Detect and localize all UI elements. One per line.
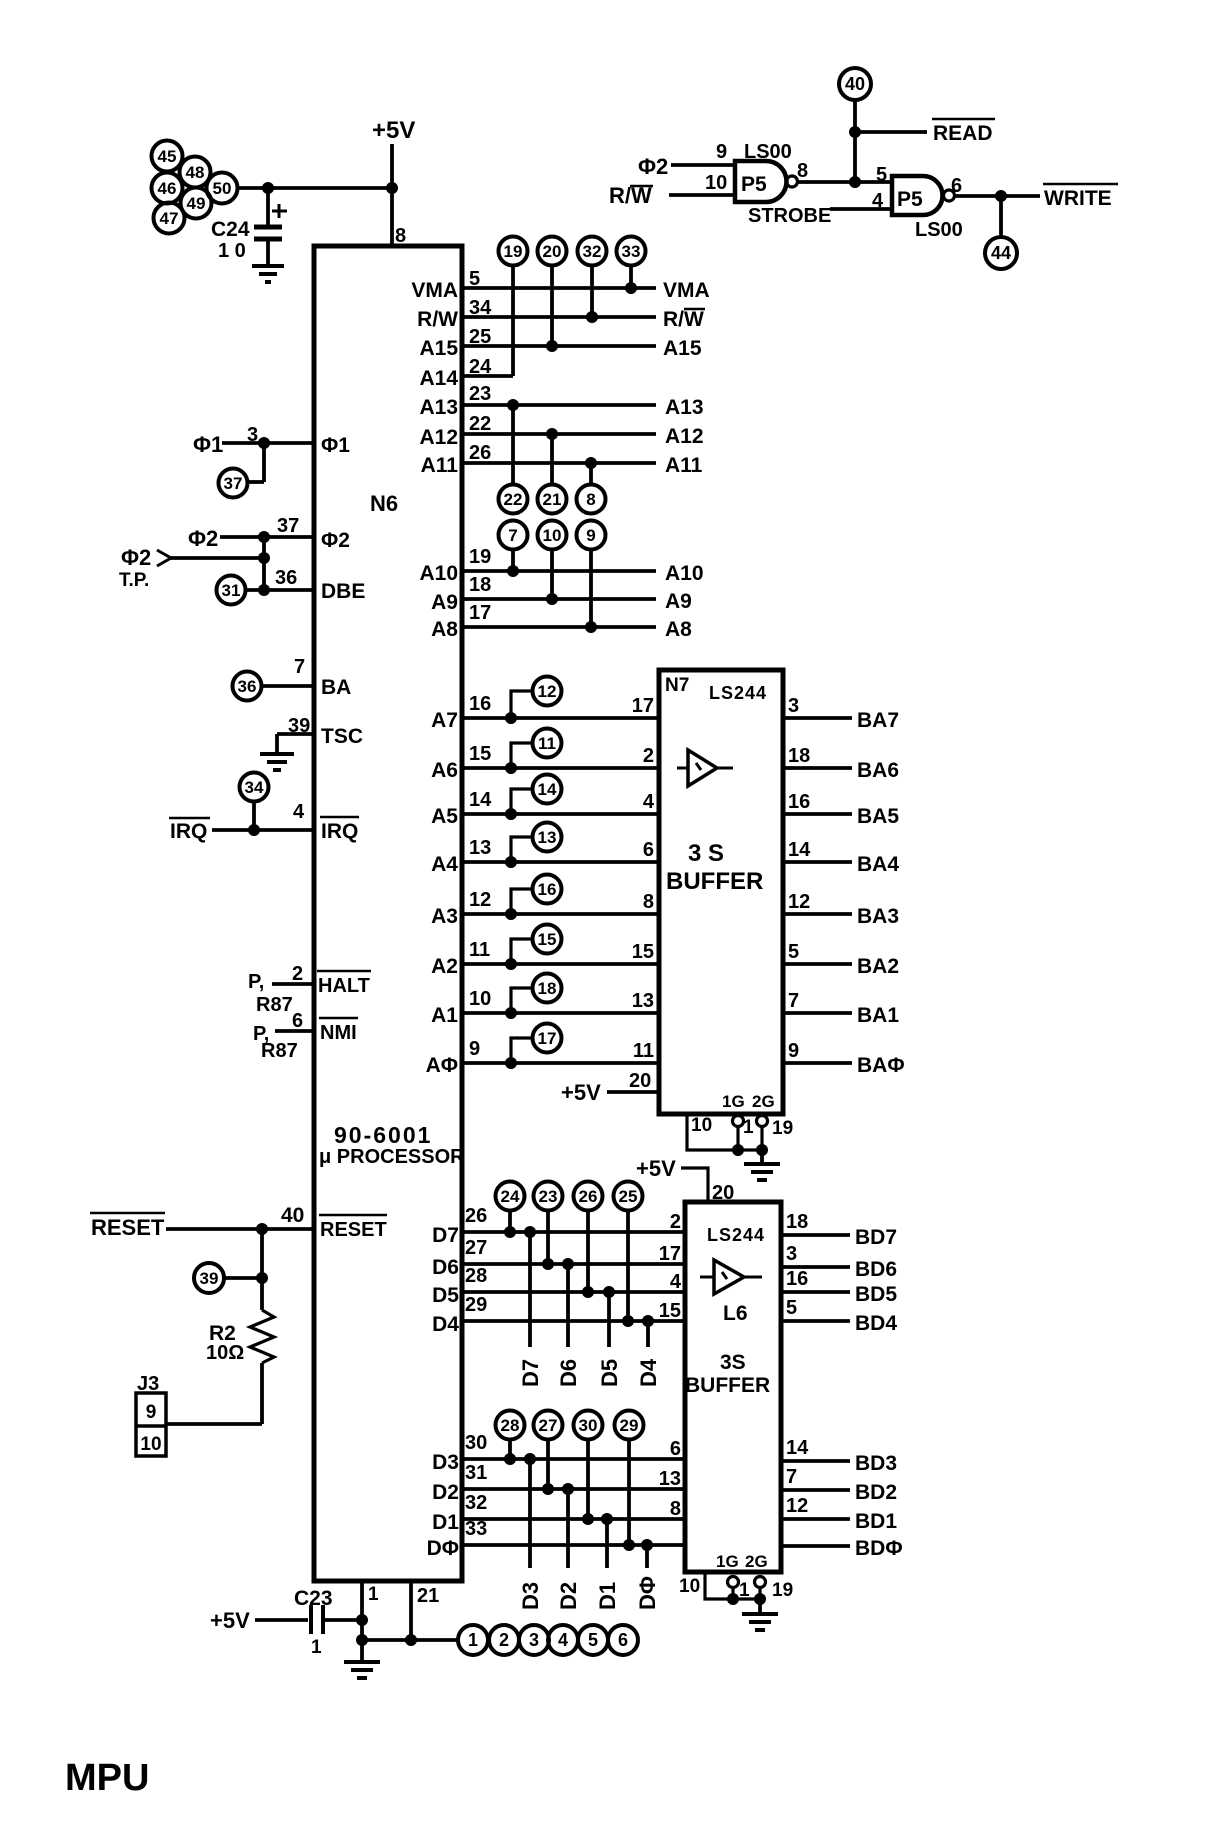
- pin 25 label: [469, 326, 491, 348]
- junction D0 at circle stem: [623, 1539, 635, 1551]
- svg-text:A10: A10: [665, 562, 704, 585]
- wire BD6 output: [781, 1265, 850, 1269]
- capacitor C24 plates: [254, 227, 282, 239]
- connector J3 body: [136, 1393, 166, 1456]
- wire BDΦ output: [781, 1544, 850, 1548]
- svg-text:A12: A12: [419, 426, 458, 449]
- svg-text:BUFFER: BUFFER: [685, 1374, 770, 1397]
- svg-text:4: 4: [293, 801, 305, 823]
- buffer N7 input pin 4 label: [643, 791, 655, 813]
- junction D7 bus tap: [524, 1226, 536, 1238]
- svg-text:13: 13: [659, 1468, 681, 1490]
- pin 18 label: [469, 574, 491, 596]
- svg-text:D5: D5: [597, 1359, 622, 1387]
- pin 9 label: [716, 141, 727, 163]
- +5V label top: [372, 117, 415, 144]
- svg-text:12: 12: [538, 682, 557, 701]
- connector pad circle 24: [496, 1182, 525, 1211]
- svg-text:19: 19: [772, 1118, 793, 1139]
- pin 20 label N7: [629, 1070, 651, 1092]
- pin 4 label: [872, 190, 884, 212]
- junction A1 tap: [505, 1007, 517, 1019]
- svg-text:3: 3: [788, 695, 799, 717]
- pin 19 label: [469, 546, 491, 568]
- L6 pin 1 label: [739, 1580, 750, 1601]
- wire circle 10 stem: [550, 549, 554, 599]
- gate P5b part number LS00: [915, 219, 963, 241]
- svg-text:12: 12: [786, 1495, 808, 1517]
- svg-text:BDΦ: BDΦ: [855, 1537, 903, 1560]
- svg-text:N6: N6: [370, 491, 398, 516]
- svg-text:17: 17: [538, 1029, 557, 1048]
- pin name A4 inside MPU: [431, 853, 458, 876]
- svg-text:LS244: LS244: [709, 683, 767, 703]
- pin 8 label MPU Vcc: [395, 225, 406, 247]
- wire D1 bus drop: [605, 1519, 609, 1568]
- net label A10: [665, 562, 704, 585]
- svg-text:+5V: +5V: [561, 1080, 601, 1105]
- junction D4 bus tap: [642, 1315, 654, 1327]
- junction A13 node: [507, 399, 519, 411]
- svg-text:47: 47: [160, 209, 179, 228]
- wire PHI1 node to circle 37: [248, 443, 264, 482]
- connector pad circle 37: [219, 469, 248, 498]
- svg-text:21: 21: [543, 490, 562, 509]
- pin 36 label: [275, 567, 297, 589]
- ground at MPU pin 1: [344, 1662, 380, 1678]
- wire BA3 output: [783, 912, 852, 916]
- wire R87 to pin 6 NMI: [275, 1029, 314, 1033]
- pin name A11 inside: [421, 454, 459, 477]
- pin 6 label gate P5b output: [951, 175, 962, 197]
- title MPU: [65, 1757, 149, 1799]
- svg-text:6: 6: [618, 1630, 628, 1650]
- svg-text:A11: A11: [665, 454, 703, 477]
- buffer L6 input pin 8 label: [670, 1498, 681, 1520]
- wire A2 tap to circle 15: [511, 939, 532, 964]
- pin name A7 inside MPU: [431, 709, 458, 732]
- svg-text:BA2: BA2: [857, 955, 899, 978]
- junction D5 bus tap: [603, 1286, 615, 1298]
- net label IRQ: [169, 818, 210, 843]
- svg-text:19: 19: [772, 1580, 793, 1601]
- wire circle 29 stem: [627, 1439, 631, 1545]
- svg-text:32: 32: [583, 242, 602, 261]
- pin name AΦ inside MPU: [426, 1054, 458, 1077]
- svg-text:D4: D4: [636, 1358, 661, 1387]
- svg-text:DBE: DBE: [321, 580, 365, 603]
- svg-text:A8: A8: [665, 618, 692, 641]
- pin 10 label A1: [469, 988, 491, 1010]
- junction A6 tap: [505, 762, 517, 774]
- pin 13 label A4: [469, 837, 491, 859]
- svg-text:2: 2: [499, 1630, 509, 1650]
- svg-text:14: 14: [788, 839, 811, 861]
- junction D4 at circle stem: [622, 1315, 634, 1327]
- svg-text:10Ω: 10Ω: [206, 1342, 244, 1364]
- svg-text:3 S: 3 S: [688, 840, 724, 867]
- pin name A13 inside: [419, 396, 458, 419]
- svg-text:9: 9: [469, 1038, 480, 1060]
- svg-text:R/W: R/W: [417, 308, 458, 331]
- connector pad circle 50: [207, 173, 238, 204]
- svg-text:Φ2: Φ2: [321, 529, 350, 552]
- svg-text:TSC: TSC: [321, 725, 363, 748]
- IC N7 part number LS244: [709, 683, 767, 703]
- pin name A8 inside: [431, 618, 458, 641]
- svg-text:15: 15: [659, 1300, 681, 1322]
- wire R/W to gate P5a pin 10: [669, 193, 735, 197]
- pin 24 label: [469, 356, 492, 378]
- svg-text:17: 17: [469, 602, 491, 624]
- svg-text:9: 9: [716, 141, 727, 163]
- IC N7 label 3S: [688, 840, 724, 867]
- wire IRQ to pin 4: [212, 828, 314, 832]
- wire +5V down to rail: [390, 144, 394, 188]
- wire L6 pin 10 to enable ground: [705, 1572, 760, 1599]
- svg-text:18: 18: [538, 979, 557, 998]
- testpoint arrow PHI2: [157, 550, 171, 566]
- buffer L6 output pin 18 label: [786, 1211, 808, 1233]
- net label BD3: [855, 1452, 897, 1475]
- wire circle 39 to RESET net: [224, 1276, 262, 1280]
- pin 12 label A3: [469, 889, 491, 911]
- net label BD6: [855, 1258, 897, 1281]
- svg-text:+5V: +5V: [636, 1156, 676, 1181]
- junction PHI1 node: [258, 437, 270, 449]
- junction A8 node: [585, 621, 597, 633]
- net label BA2: [857, 955, 899, 978]
- junction D2 bus tap: [562, 1483, 574, 1495]
- junction PHI2 T.P. node: [258, 552, 270, 564]
- svg-text:11: 11: [633, 1040, 654, 1062]
- junction D5 at circle stem: [582, 1286, 594, 1298]
- connector pad circle 40: [839, 68, 871, 100]
- connector pad circle 4: [548, 1625, 578, 1655]
- ground below N7: [744, 1164, 780, 1180]
- svg-text:D7: D7: [432, 1224, 459, 1247]
- svg-text:15: 15: [632, 941, 654, 963]
- connector pad circle 25: [614, 1182, 643, 1211]
- pin 2 label: [292, 963, 303, 985]
- svg-text:11: 11: [538, 734, 556, 753]
- wire A6 tap to circle 11: [511, 743, 532, 768]
- svg-text:21: 21: [417, 1585, 439, 1607]
- svg-text:1: 1: [311, 1637, 322, 1658]
- pin name D7 inside MPU: [432, 1224, 459, 1247]
- connector pad circle 7: [499, 521, 528, 550]
- net label BA1: [857, 1004, 899, 1027]
- pin 33 label D0: [465, 1518, 487, 1540]
- svg-text:P5: P5: [741, 173, 767, 196]
- svg-text:+5V: +5V: [210, 1608, 250, 1633]
- buffer N7 input pin 15 label: [632, 941, 654, 963]
- pin 20 label L6: [712, 1182, 734, 1204]
- wire D7 bus drop: [528, 1232, 532, 1347]
- svg-text:READ: READ: [933, 122, 993, 145]
- IC N7 label BUFFER: [666, 868, 763, 895]
- wire C23 to pin 1 node: [325, 1618, 362, 1622]
- svg-text:A2: A2: [431, 955, 458, 978]
- svg-text:D5: D5: [432, 1284, 459, 1307]
- svg-text:BA6: BA6: [857, 759, 899, 782]
- svg-text:27: 27: [539, 1416, 558, 1435]
- net label BD5: [855, 1283, 897, 1306]
- connector pad circle 22: [499, 485, 528, 514]
- svg-text:5: 5: [786, 1297, 797, 1319]
- resistor R2: [250, 1310, 274, 1363]
- connector pad circle 15: [533, 925, 562, 954]
- pin name DΦ inside MPU: [427, 1537, 459, 1560]
- buffer L6 input pin 4 label: [670, 1271, 682, 1293]
- junction at C24 top: [262, 182, 274, 194]
- svg-text:46: 46: [158, 179, 177, 198]
- svg-text:17: 17: [632, 695, 654, 717]
- svg-text:P5: P5: [897, 188, 923, 211]
- buffer N7 output pin 14 label: [788, 839, 811, 861]
- svg-text:19: 19: [469, 546, 491, 568]
- svg-text:A9: A9: [665, 590, 692, 613]
- svg-text:C23: C23: [294, 1587, 333, 1610]
- bus label D5: [597, 1359, 622, 1387]
- IC N6 part number 90-6001: [334, 1122, 432, 1148]
- svg-text:10: 10: [705, 172, 727, 194]
- connector pad circle 20: [538, 237, 567, 266]
- capacitor C23 value 1: [311, 1637, 322, 1658]
- svg-text:26: 26: [579, 1187, 598, 1206]
- connector pad circle 3: [519, 1625, 549, 1655]
- svg-text:IRQ: IRQ: [170, 820, 207, 843]
- svg-text:μ PROCESSOR: μ PROCESSOR: [319, 1146, 465, 1168]
- pin name A5 inside MPU: [431, 805, 458, 828]
- net label BA3: [857, 905, 899, 928]
- svg-text:13: 13: [469, 837, 491, 859]
- svg-text:4: 4: [558, 1630, 568, 1650]
- svg-text:VMA: VMA: [411, 279, 458, 302]
- wire BA5 output: [783, 812, 852, 816]
- svg-text:BAΦ: BAΦ: [857, 1054, 905, 1077]
- junction +5V rail to MPU pin8: [386, 182, 398, 194]
- svg-text:RESET: RESET: [91, 1215, 165, 1240]
- svg-text:29: 29: [465, 1294, 487, 1316]
- wire PHI2 node down to DBE node: [262, 537, 266, 590]
- svg-text:26: 26: [469, 442, 491, 464]
- connector pad circle 45: [152, 141, 183, 172]
- L6 pin 10 label: [679, 1576, 700, 1597]
- buffer IC L6 LS244 body: [685, 1202, 781, 1572]
- svg-text:1G: 1G: [716, 1552, 739, 1571]
- wire A7 tap to circle 12: [511, 691, 532, 718]
- N7 pin 19 label: [772, 1118, 793, 1139]
- svg-text:5: 5: [876, 164, 887, 186]
- svg-text:1: 1: [743, 1117, 754, 1138]
- connector J3 label: [137, 1373, 159, 1395]
- capacitor C23 plates: [311, 1605, 323, 1634]
- svg-text:T.P.: T.P.: [119, 570, 149, 591]
- buffer L6 output pin 14 label: [786, 1437, 809, 1459]
- pin name TSC inside: [321, 725, 363, 748]
- connector pad circle 46: [152, 173, 183, 204]
- junction N7 enable 19: [756, 1144, 768, 1156]
- svg-text:STROBE: STROBE: [748, 205, 831, 227]
- connector pad circle 26: [574, 1182, 603, 1211]
- wire A4 tap to circle 13: [511, 837, 532, 862]
- +5V label at L6 pin 20: [636, 1156, 676, 1181]
- wire +5V to N7 pin 20: [607, 1090, 659, 1094]
- wire +5V rail to MPU pin 8: [390, 188, 394, 246]
- svg-text:2: 2: [670, 1211, 681, 1233]
- svg-text:9: 9: [788, 1040, 799, 1062]
- buffer L6 output pin 5 label: [786, 1297, 797, 1319]
- svg-text:22: 22: [469, 413, 491, 435]
- wire A3 MPU pin 12 to buffer N7: [462, 912, 659, 916]
- svg-text:10: 10: [543, 526, 562, 545]
- pin 21 label MPU: [417, 1585, 439, 1607]
- svg-text:DΦ: DΦ: [427, 1537, 459, 1560]
- pin 16 label A7: [469, 693, 491, 715]
- N7 enable bubble pin 1: [733, 1116, 744, 1127]
- svg-text:RESET: RESET: [320, 1219, 387, 1241]
- wire VMA pin 5: [462, 286, 656, 290]
- junction A0 tap: [505, 1057, 517, 1069]
- pin 17 label: [469, 602, 491, 624]
- connector pad circle 27: [534, 1411, 563, 1440]
- pin 9 label A0: [469, 1038, 480, 1060]
- wire circle 27 stem: [546, 1439, 550, 1489]
- svg-text:23: 23: [539, 1187, 558, 1206]
- wire L6 enables to ground: [758, 1599, 762, 1614]
- svg-text:D1: D1: [595, 1582, 620, 1610]
- net label BA7: [857, 709, 899, 732]
- net label P R87 at NMI: [253, 1023, 298, 1062]
- pin name D2 inside MPU: [432, 1481, 459, 1504]
- svg-text:10: 10: [140, 1434, 161, 1455]
- svg-text:19: 19: [504, 242, 523, 261]
- capacitor C24 label: [211, 218, 250, 241]
- svg-text:A13: A13: [665, 396, 704, 419]
- svg-text:36: 36: [238, 677, 257, 696]
- wire circle 19 stem: [511, 265, 515, 376]
- wire D2 MPU pin 31 to buffer L6: [462, 1487, 685, 1491]
- svg-text:14: 14: [538, 780, 557, 799]
- junction at resistor R2 top: [256, 1272, 268, 1284]
- junction A7 tap: [505, 712, 517, 724]
- svg-text:BUFFER: BUFFER: [666, 868, 763, 895]
- svg-text:D3: D3: [432, 1451, 459, 1474]
- wire A14 pin 24: [462, 374, 513, 378]
- IC L6 label 3S: [720, 1351, 746, 1374]
- connector pad circle 5: [578, 1625, 608, 1655]
- svg-text:33: 33: [622, 242, 641, 261]
- svg-text:BA4: BA4: [857, 853, 899, 876]
- buffer L6 input pin 6 label: [670, 1438, 681, 1460]
- wire BA1 output: [783, 1011, 852, 1015]
- wire D2 bus drop: [566, 1489, 570, 1568]
- buffer N7 input pin 13 label: [632, 990, 654, 1012]
- svg-text:37: 37: [224, 474, 243, 493]
- net label BA4: [857, 853, 899, 876]
- connector J3 pin 9 label: [146, 1402, 157, 1423]
- wire N7 enables to ground: [760, 1150, 764, 1164]
- net label BAΦ: [857, 1054, 905, 1077]
- svg-text:3: 3: [786, 1243, 797, 1265]
- pin 37 label: [277, 515, 299, 537]
- connector pad circle 16: [533, 875, 562, 904]
- wire D4 bus drop: [646, 1321, 650, 1347]
- svg-text:NMI: NMI: [320, 1022, 357, 1044]
- buffer L6 input pin 2 label: [670, 1211, 681, 1233]
- svg-text:90-6001: 90-6001: [334, 1122, 432, 1148]
- buffer L6 output pin 12 label: [786, 1495, 808, 1517]
- connector pad circle 47: [154, 203, 185, 234]
- net label BA5: [857, 805, 899, 828]
- pin 31 label D2: [465, 1462, 487, 1484]
- svg-text:2: 2: [292, 963, 303, 985]
- pin name D5 inside MPU: [432, 1284, 459, 1307]
- net label READ: [932, 119, 995, 145]
- svg-text:Φ2: Φ2: [638, 154, 668, 179]
- connector pad circle 12: [533, 677, 562, 706]
- wire +5V to C23: [255, 1618, 308, 1622]
- svg-text:24: 24: [469, 356, 492, 378]
- wire A0 tap to circle 17: [511, 1038, 532, 1063]
- capacitor C24 value 10: [218, 240, 246, 262]
- pin 40 label: [281, 1204, 304, 1227]
- connector pad circle 11: [533, 729, 562, 758]
- IC N6 part name microprocessor: [319, 1146, 465, 1168]
- svg-text:10: 10: [691, 1115, 712, 1136]
- pin 11 label A2: [469, 939, 490, 961]
- wire A8 pin 17: [462, 625, 656, 629]
- wire circle 31 to pin 36 DBE: [245, 588, 314, 592]
- svg-text:BA1: BA1: [857, 1004, 899, 1027]
- IC N7 designator: [665, 675, 689, 696]
- svg-text:12: 12: [788, 891, 810, 913]
- junction L6 enable 19: [754, 1593, 766, 1605]
- svg-text:8: 8: [643, 891, 654, 913]
- svg-text:6: 6: [951, 175, 962, 197]
- pin name A12 inside: [419, 426, 458, 449]
- wire D4 MPU pin 29 to buffer L6: [462, 1319, 685, 1323]
- svg-text:29: 29: [620, 1416, 639, 1435]
- svg-text:13: 13: [632, 990, 654, 1012]
- net label P R87 at HALT: [248, 971, 293, 1016]
- svg-text:A14: A14: [419, 367, 458, 390]
- pin 1 label MPU: [368, 1584, 379, 1605]
- gate P5a part number LS00: [744, 141, 792, 163]
- wire circle 23 stem: [546, 1210, 550, 1264]
- L6 enable pin names 1G 2G: [716, 1552, 768, 1571]
- buffer symbol in L6: [700, 1260, 762, 1294]
- junction D3 at circle stem: [504, 1453, 516, 1465]
- svg-text:8: 8: [670, 1498, 681, 1520]
- svg-text:16: 16: [469, 693, 491, 715]
- net label STROBE: [748, 205, 831, 227]
- pin name D6 inside MPU: [432, 1256, 459, 1279]
- connector pad circle 10: [538, 521, 567, 550]
- net label BD1: [855, 1510, 897, 1533]
- svg-text:13: 13: [538, 828, 557, 847]
- +5V label at N7 pin 20: [561, 1080, 601, 1105]
- svg-text:D7: D7: [518, 1359, 543, 1387]
- net label A15: [663, 337, 702, 360]
- svg-text:24: 24: [501, 1187, 520, 1206]
- net label WRITE: [1043, 184, 1118, 210]
- pin 27 label D6: [465, 1237, 487, 1259]
- buffer IC N7 LS244 body: [659, 670, 783, 1114]
- svg-text:1G: 1G: [722, 1092, 745, 1111]
- wire A1 tap to circle 18: [511, 988, 532, 1013]
